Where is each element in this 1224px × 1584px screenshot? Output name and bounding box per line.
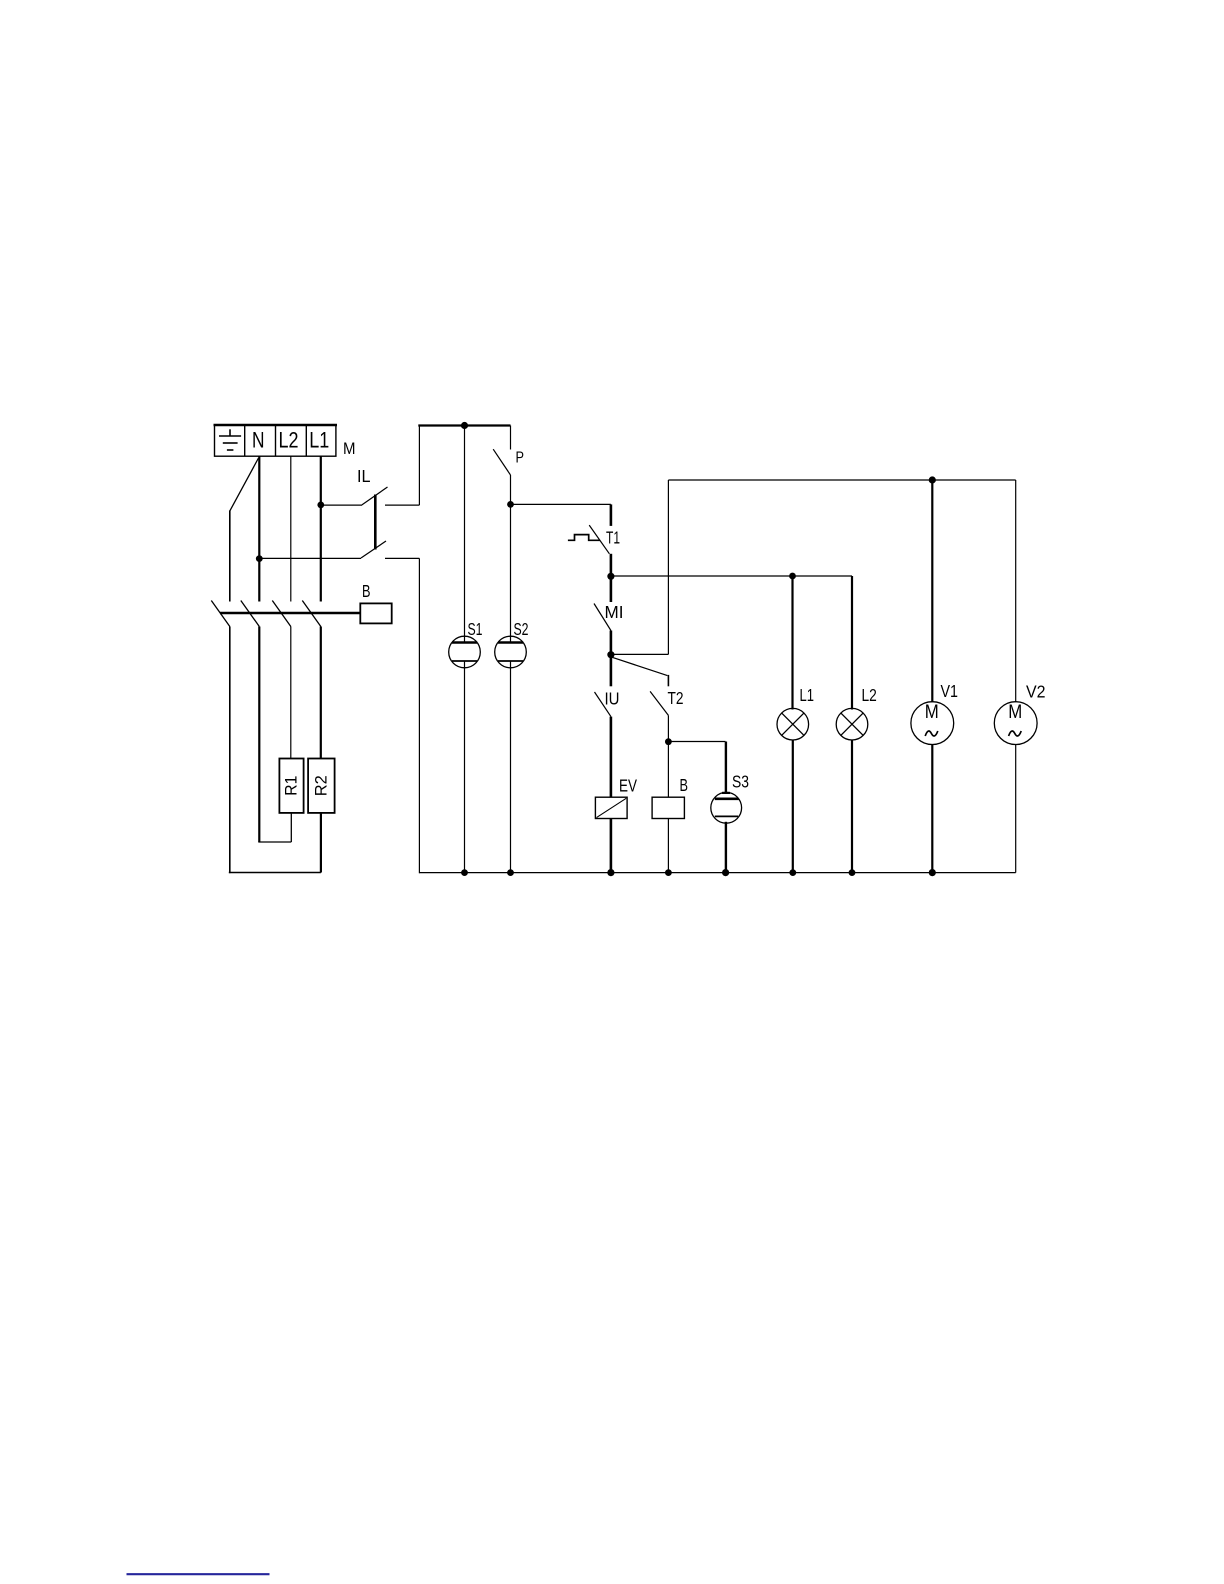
svg-text:M: M — [343, 439, 356, 458]
switch IL lower blade — [361, 541, 386, 558]
switch S2 circle — [495, 636, 527, 668]
svg-text:L1: L1 — [800, 685, 815, 705]
switch P blade — [493, 449, 510, 475]
T1 timer pulse symbol — [568, 535, 600, 541]
node: P junction dot — [507, 501, 514, 508]
lamp L1 — [777, 708, 809, 740]
wire: IL riser to top rail — [418, 425, 420, 505]
wire: lamp L2 lower — [851, 740, 853, 873]
wire: S2 branch lower — [510, 661, 512, 873]
wire: N lower vertical — [258, 627, 260, 843]
wire: T2 lower — [667, 715, 669, 797]
top rail 2 — [668, 479, 1015, 481]
wire: S1 branch lower — [464, 661, 466, 873]
switch S1 bottom chord — [452, 660, 477, 662]
motor V1 tilde — [925, 731, 938, 736]
wire: bottom loop to R2 — [229, 872, 321, 874]
switch IL upper fixed wire — [385, 504, 419, 506]
wire: B to bottom rail — [667, 819, 669, 873]
node: MI junction dot — [607, 651, 614, 658]
wire: motor V1 lower — [931, 745, 933, 873]
node: bottom dot S1 — [461, 869, 468, 876]
contact T1 lower stub — [610, 554, 613, 577]
wire: P to S2 — [510, 475, 512, 643]
wire: S1 branch upper — [464, 426, 466, 644]
svg-text:R2: R2 — [311, 775, 330, 796]
switch P stub — [510, 426, 512, 450]
node: rail1 S1 dot — [461, 422, 468, 429]
wire: S3 upper — [725, 742, 727, 794]
top rail 1 — [418, 424, 510, 426]
wire: IL drop to bottom rail — [418, 558, 420, 873]
wire: motor V2 lower — [1015, 745, 1017, 873]
svg-text:IL: IL — [357, 466, 371, 486]
bottom rail — [419, 872, 1015, 874]
svg-text:B: B — [362, 581, 371, 601]
node: L1 branch dot — [789, 573, 796, 580]
wire: L2 lower vertical to R1 — [290, 627, 292, 759]
lamp L1 cross — [782, 713, 804, 735]
node: bottom dot L1 — [789, 869, 796, 876]
svg-text:IU: IU — [605, 689, 620, 709]
contact T1 upper stub — [610, 504, 613, 526]
svg-text:B: B — [680, 775, 689, 795]
wire: R1 bottom riser — [290, 813, 292, 842]
node: bottom dot B — [665, 869, 672, 876]
node: bottom dot S2 — [507, 869, 514, 876]
switch S3 wire end flare — [722, 792, 730, 794]
switch IL lower fixed wire — [385, 557, 419, 559]
wire: diagonal link to T2 — [612, 657, 667, 675]
wire: motor V1 upper — [931, 480, 933, 702]
switch S1 circle — [449, 636, 481, 668]
node: bottom dot S3 — [722, 869, 729, 876]
lamp L2 cross — [841, 713, 863, 735]
motor V2 — [994, 702, 1037, 745]
svg-text:S2: S2 — [514, 619, 529, 639]
breaker blade pole 2 — [241, 601, 259, 627]
switch S1 top chord — [452, 641, 477, 644]
earth symbol (terminal 1) — [219, 429, 241, 450]
contact T2 upper stub — [667, 675, 669, 686]
switch IL upper pole wire — [321, 504, 361, 506]
svg-text:T2: T2 — [668, 688, 684, 708]
breaker actuator bar — [220, 612, 360, 614]
node: N junction dot — [256, 555, 263, 562]
wire: IU to EV — [610, 717, 613, 798]
switch IL lower pole wire — [259, 557, 361, 559]
resistor R1 — [279, 759, 303, 813]
svg-text:S1: S1 — [468, 619, 483, 639]
svg-text:T1: T1 — [606, 528, 620, 548]
resistor R2 — [308, 759, 335, 813]
contact T1 blade — [589, 525, 609, 554]
lamp L2 — [836, 708, 868, 740]
switch S3 circle — [711, 792, 742, 823]
node: T2 junction dot — [665, 738, 672, 745]
wire: T2 riser from rail 2 — [667, 480, 669, 654]
wire: horizontal to lamps — [611, 575, 852, 577]
wire: T2 junction to S3 — [668, 741, 725, 743]
wire: EV to bottom rail — [610, 819, 613, 873]
wire: N vertical — [258, 456, 260, 601]
svg-text:L2: L2 — [862, 685, 877, 705]
svg-text:P: P — [516, 450, 525, 467]
svg-text:EV: EV — [619, 776, 637, 796]
switch S3 top chord — [715, 797, 739, 800]
switch S3 bottom chord — [715, 815, 738, 817]
svg-text:S3: S3 — [732, 772, 749, 792]
breaker blade pole 3 — [272, 601, 291, 627]
node: bottom dot EV — [607, 869, 614, 876]
svg-text:L2: L2 — [279, 428, 299, 453]
contact IU upper stub — [610, 655, 613, 687]
switch IL upper blade — [361, 487, 388, 506]
wire: L1 vertical — [320, 456, 322, 601]
svg-text:L1: L1 — [309, 428, 329, 453]
actuator box B — [360, 603, 391, 623]
contact T2 blade — [650, 691, 668, 715]
switch S2 bottom chord — [498, 660, 523, 662]
svg-text:M: M — [1008, 702, 1022, 723]
wire: motor V2 upper — [1015, 480, 1017, 702]
wire: earth diagonal from N terminal — [230, 458, 259, 511]
node: rail2 V1 dot — [929, 476, 936, 483]
svg-text:M: M — [925, 702, 939, 723]
contact MI upper stub — [610, 576, 613, 602]
wire: earth lower vertical — [229, 627, 231, 874]
svg-text:V2: V2 — [1026, 682, 1046, 702]
switch IL link bar — [374, 495, 377, 550]
node: bottom dot V1 — [929, 869, 936, 876]
svg-text:MI: MI — [605, 602, 624, 622]
wire: L2 vertical — [290, 456, 292, 601]
wire: R2 bottom riser — [320, 813, 322, 873]
wire: lamp L2 upper — [851, 576, 853, 710]
coil EV diagonal — [597, 798, 627, 817]
svg-text:V1: V1 — [941, 681, 959, 701]
svg-text:R1: R1 — [282, 776, 301, 796]
node: L1 junction dot — [317, 502, 324, 509]
motor V1 — [911, 702, 954, 745]
contact IU blade — [595, 692, 611, 717]
wire: lamp L1 lower — [792, 740, 794, 873]
wire: earth vertical — [229, 511, 231, 602]
wire: P junction to T1 — [511, 503, 611, 505]
breaker blade pole 1 — [211, 601, 230, 627]
svg-text:N: N — [252, 428, 265, 453]
wire: MI junction to T2 riser — [611, 653, 669, 655]
coil B — [652, 797, 684, 818]
wire: S3 lower — [725, 822, 727, 873]
contact MI lower stub — [610, 631, 613, 655]
breaker blade pole 4 — [302, 601, 321, 627]
node: bottom dot L2 — [849, 869, 856, 876]
wire: loop to R1 — [258, 841, 291, 843]
terminal block M — [214, 425, 338, 456]
contact MI blade — [594, 604, 611, 631]
wire: L1 lower vertical to R2 — [320, 627, 322, 759]
wire: lamp L1 upper — [791, 576, 793, 710]
node: T1 junction dot — [607, 573, 614, 580]
motor V2 tilde — [1009, 731, 1022, 736]
coil EV — [595, 797, 627, 818]
footer blue line — [127, 1573, 270, 1575]
switch S2 top chord — [498, 641, 523, 644]
